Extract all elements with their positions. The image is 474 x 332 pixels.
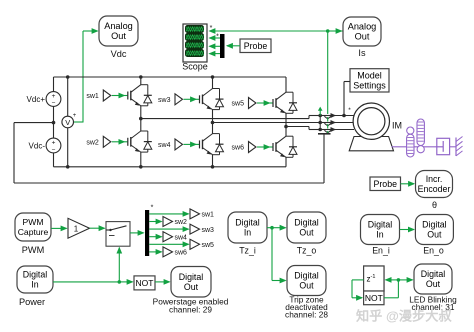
svg-text:θ: θ [432, 200, 437, 210]
svg-text:Capture: Capture [18, 227, 49, 237]
svg-text:sw6: sw6 [175, 250, 188, 257]
svg-text:V: V [65, 118, 70, 127]
svg-text:Tz_i: Tz_i [239, 246, 256, 256]
svg-text:sw1: sw1 [202, 212, 215, 219]
svg-text:Probe: Probe [374, 179, 398, 189]
svg-text:PWM: PWM [22, 245, 44, 255]
svg-text:Tz_o: Tz_o [297, 246, 317, 256]
svg-text:Is: Is [358, 48, 366, 58]
svg-text:sw4: sw4 [158, 142, 171, 149]
svg-text:Encoder: Encoder [418, 184, 451, 194]
svg-text:Vdc: Vdc [111, 49, 127, 59]
svg-text:Out: Out [111, 31, 126, 41]
svg-text:Digital: Digital [294, 271, 318, 281]
svg-text:sw5: sw5 [202, 242, 215, 249]
svg-text:sw2: sw2 [175, 219, 188, 226]
svg-text:−: − [52, 100, 56, 107]
svg-text:+: + [52, 93, 56, 100]
svg-text:+: + [52, 140, 56, 147]
svg-text:Scope: Scope [182, 62, 208, 72]
svg-text:In: In [376, 230, 383, 240]
svg-text:Out: Out [184, 282, 199, 292]
svg-text:Out: Out [426, 279, 441, 289]
svg-text:Vdc+: Vdc+ [27, 95, 46, 104]
svg-text:Probe: Probe [244, 41, 268, 51]
svg-text:*: * [216, 34, 219, 41]
svg-text:知乎 @漫步大叔: 知乎 @漫步大叔 [356, 308, 452, 324]
svg-text:Incr.: Incr. [426, 174, 443, 184]
svg-text:Digital: Digital [368, 220, 392, 230]
svg-text:sw3: sw3 [158, 97, 171, 104]
svg-text:channel: 28: channel: 28 [285, 309, 328, 319]
svg-text:Digital: Digital [422, 220, 446, 230]
svg-text:sw2: sw2 [86, 140, 99, 147]
svg-text:sw5: sw5 [232, 101, 245, 108]
svg-text:In: In [31, 280, 38, 290]
svg-text:Digital: Digital [235, 218, 259, 228]
svg-text:+: + [73, 113, 77, 119]
svg-text:Vdc-: Vdc- [29, 142, 46, 151]
svg-text:Out: Out [355, 32, 370, 42]
svg-text:*: * [151, 205, 154, 212]
svg-text:Digital: Digital [23, 270, 47, 280]
svg-text:En_i: En_i [372, 246, 390, 256]
svg-text:1: 1 [74, 224, 79, 233]
svg-text:Model: Model [357, 70, 382, 80]
svg-text:IM: IM [392, 121, 402, 131]
svg-text:Out: Out [427, 230, 442, 240]
svg-text:Digital: Digital [179, 272, 203, 282]
svg-text:sw3: sw3 [202, 227, 215, 234]
svg-text:Analog: Analog [348, 22, 377, 32]
svg-text:NOT: NOT [365, 293, 383, 303]
svg-text:PWM: PWM [22, 217, 43, 227]
svg-text:Digital: Digital [294, 218, 318, 228]
svg-text:channel: 29: channel: 29 [169, 305, 212, 315]
svg-text:−: − [52, 147, 56, 154]
svg-text:Out: Out [299, 281, 314, 291]
svg-text:sw1: sw1 [86, 93, 99, 100]
svg-text:Out: Out [299, 228, 314, 238]
svg-text:En_o: En_o [423, 246, 444, 256]
svg-text:sw6: sw6 [232, 145, 245, 152]
svg-text:Analog: Analog [104, 21, 133, 31]
svg-text:*: * [210, 25, 213, 32]
svg-text:Settings: Settings [353, 80, 386, 90]
svg-text:In: In [244, 228, 251, 238]
svg-text:NOT: NOT [136, 278, 154, 288]
svg-text:sw4: sw4 [175, 234, 188, 241]
svg-text:Digital: Digital [421, 269, 445, 279]
svg-text:Power: Power [19, 297, 45, 307]
